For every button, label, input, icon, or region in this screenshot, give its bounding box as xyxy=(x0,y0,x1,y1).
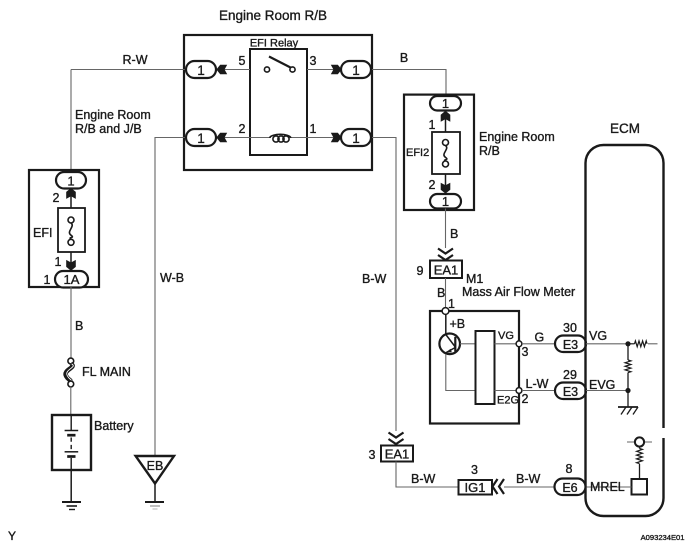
connector oval 1 (row1 right) xyxy=(341,61,371,78)
ECM right edge gap xyxy=(660,428,668,438)
wire EVG inside ECM xyxy=(586,390,628,392)
svg-text:EFI2: EFI2 xyxy=(406,147,429,159)
svg-text:2: 2 xyxy=(429,178,436,192)
wire EA1-3 down to IG1 row xyxy=(396,462,459,488)
svg-text:+B: +B xyxy=(450,317,466,331)
connector oval 1A (EFI bottom) xyxy=(55,271,88,288)
splice chevron left (IG1) xyxy=(493,479,505,494)
fuse EFI2 (body) xyxy=(432,132,460,174)
svg-text:EFI Relay: EFI Relay xyxy=(250,38,299,50)
svg-text:2: 2 xyxy=(522,392,529,406)
MREL driver box xyxy=(632,479,648,495)
wire EB to ground xyxy=(154,484,156,503)
wire IG1 to E6 xyxy=(504,486,555,488)
node 2 (MAF E2G) xyxy=(516,388,522,394)
svg-text:VG: VG xyxy=(498,330,514,342)
svg-text:ECM: ECM xyxy=(610,121,640,136)
svg-text:Mass Air Flow Meter: Mass Air Flow Meter xyxy=(462,285,575,299)
ground (EB) xyxy=(145,502,164,509)
battery symbol xyxy=(65,415,79,470)
junction block EFI fuse (box) xyxy=(29,170,99,287)
relay switch blade xyxy=(269,57,291,68)
svg-text:W-B: W-B xyxy=(160,271,184,285)
connector IG1 xyxy=(459,480,493,495)
wire inside EFI block xyxy=(70,188,72,208)
svg-text:IG1: IG1 xyxy=(465,480,486,495)
relay coil xyxy=(270,134,292,142)
arrow down to EFI2 bottom connector xyxy=(441,183,451,194)
wire EVG node to chassis ground xyxy=(627,391,629,408)
wire R-W horizontal xyxy=(71,69,186,71)
ground (battery) xyxy=(62,502,81,510)
svg-text:EA1: EA1 xyxy=(385,447,410,462)
wire pin1 to transistor xyxy=(445,315,447,335)
svg-text:2: 2 xyxy=(53,191,60,205)
svg-text:1: 1 xyxy=(67,174,74,189)
svg-text:B: B xyxy=(450,227,458,241)
svg-text:EA1: EA1 xyxy=(434,263,459,278)
svg-text:A093234E01: A093234E01 xyxy=(641,533,685,542)
wire coil leads xyxy=(250,137,271,139)
junction block Engine Room R/B (EFI2 box) xyxy=(404,95,474,210)
wire R-W vertical xyxy=(70,70,72,174)
connector EA1 (3) xyxy=(381,446,413,462)
fuse EFI2 symbol xyxy=(443,140,449,168)
junction VG node xyxy=(625,341,630,346)
chassis ground (ECM) xyxy=(618,407,638,415)
junction block Engine Room R/B (outer box) xyxy=(184,35,372,170)
svg-text:1A: 1A xyxy=(64,272,80,287)
splice chevron down (EA1-3) xyxy=(389,433,404,445)
wire relay pin3 to connector xyxy=(307,69,341,71)
battery (box) xyxy=(52,415,91,470)
wire B battery feed xyxy=(70,287,72,358)
svg-text:EB: EB xyxy=(147,459,164,473)
wire VG xyxy=(495,343,520,345)
svg-text:1: 1 xyxy=(352,63,360,78)
svg-text:Engine Room R/B: Engine Room R/B xyxy=(219,8,327,23)
connector oval 1 (EFI top) xyxy=(56,172,86,189)
svg-text:30: 30 xyxy=(563,321,577,335)
svg-text:2: 2 xyxy=(239,122,246,136)
svg-text:E3: E3 xyxy=(563,338,578,352)
arrow into row2-left connector xyxy=(216,133,227,143)
svg-text:B: B xyxy=(437,286,445,300)
wire W-B from row2-left connector xyxy=(155,138,186,457)
wire L-W to E3 xyxy=(522,390,555,392)
svg-text:Engine Room: Engine Room xyxy=(75,108,151,122)
wire relay pin5 to connector xyxy=(217,69,250,71)
wire EA1 to MAF pin1 xyxy=(445,278,447,311)
svg-text:3: 3 xyxy=(310,54,317,68)
svg-text:3: 3 xyxy=(369,448,376,462)
arrow up to EFI top connector xyxy=(66,188,76,199)
fuse EFI (body) xyxy=(58,208,85,252)
svg-text:EVG: EVG xyxy=(589,378,615,392)
connector oval 1 (EFI2 bottom) xyxy=(430,194,461,209)
relay switch contact left xyxy=(264,67,269,72)
fusible link FL MAIN xyxy=(66,358,74,387)
connector oval 1 (row2 right) xyxy=(341,129,371,146)
sensing element (MAF) xyxy=(476,331,495,404)
svg-text:E3: E3 xyxy=(563,385,578,399)
node pin1 (MAF) xyxy=(442,308,449,315)
transistor Q (MAF) xyxy=(439,334,460,355)
ECM (box) xyxy=(586,145,664,516)
svg-text:3: 3 xyxy=(471,463,478,477)
wire transistor emitter down and to sensing element xyxy=(446,354,476,391)
svg-text:1: 1 xyxy=(352,131,360,146)
resistor (ECM vertical) xyxy=(625,344,631,391)
svg-text:1: 1 xyxy=(44,273,51,287)
arrow into row1-right connector xyxy=(331,65,342,75)
connector oval 1 (EFI2 top) xyxy=(430,96,461,111)
svg-text:Engine Room: Engine Room xyxy=(479,130,555,144)
svg-text:8: 8 xyxy=(566,462,573,476)
ground EB (triangle) xyxy=(136,456,174,484)
svg-text:E6: E6 xyxy=(562,481,577,495)
svg-text:B: B xyxy=(75,319,83,333)
svg-text:B-W: B-W xyxy=(411,472,436,486)
wire battery to ground xyxy=(70,470,72,502)
svg-text:VG: VG xyxy=(589,329,607,343)
svg-text:1: 1 xyxy=(310,122,317,136)
wire G to E3 xyxy=(522,343,555,345)
svg-text:M1: M1 xyxy=(466,272,483,286)
connector E3 (30) xyxy=(555,336,586,353)
connector E3 (29) xyxy=(555,383,586,400)
relay switch contact right xyxy=(290,67,295,72)
svg-text:1: 1 xyxy=(442,194,449,209)
splice chevron down (EA1-9) xyxy=(438,249,453,261)
wire relay pin1 to connector xyxy=(307,137,341,139)
svg-text:B: B xyxy=(400,51,408,65)
svg-text:1: 1 xyxy=(55,255,62,269)
svg-text:FL MAIN: FL MAIN xyxy=(82,365,131,379)
node 3 (MAF VG) xyxy=(516,341,522,347)
svg-text:G: G xyxy=(535,331,545,345)
wire B EFI2 to EA1 xyxy=(445,209,447,249)
wire transistor base to sensing element xyxy=(460,343,476,345)
svg-text:1: 1 xyxy=(429,118,436,132)
svg-text:5: 5 xyxy=(239,54,246,68)
svg-text:L-W: L-W xyxy=(526,377,549,391)
svg-text:9: 9 xyxy=(417,264,424,278)
arrow down to EFI bottom connector xyxy=(66,260,76,271)
svg-text:1: 1 xyxy=(442,96,449,111)
arrow up to EFI2 top connector xyxy=(441,111,451,122)
connector oval 1 (row1 left) xyxy=(186,61,216,78)
resistor (MREL vertical) xyxy=(637,447,643,479)
junction EVG node xyxy=(625,388,630,393)
wire FL MAIN to battery xyxy=(70,387,72,416)
svg-text:EFI: EFI xyxy=(33,226,52,240)
svg-text:1: 1 xyxy=(197,131,205,146)
wire node to resistor xyxy=(628,343,635,345)
wire supply dash at MREL driver xyxy=(627,441,652,443)
svg-text:R/B and J/B: R/B and J/B xyxy=(75,122,142,136)
svg-text:B-W: B-W xyxy=(362,272,387,286)
wire after horizontal resistor xyxy=(648,343,658,345)
fuse EFI symbol xyxy=(68,217,74,245)
connector oval 1 (row2 left) xyxy=(186,129,216,146)
wire VG inside ECM xyxy=(586,343,628,345)
svg-text:MREL: MREL xyxy=(590,480,625,494)
mass air flow meter (box) xyxy=(430,311,519,424)
wire MREL inside ECM xyxy=(586,486,632,488)
svg-text:Y: Y xyxy=(8,529,16,543)
MREL driver circle xyxy=(635,437,644,446)
wire E2G xyxy=(495,390,520,392)
arrow into row1-left connector xyxy=(216,65,227,75)
svg-text:E2G: E2G xyxy=(497,395,519,407)
resistor (ECM horizontal) xyxy=(635,341,648,347)
svg-text:1: 1 xyxy=(197,63,205,78)
svg-text:B-W: B-W xyxy=(516,472,541,486)
arrow into row2-right connector xyxy=(331,133,342,143)
wire relay pin2 to connector xyxy=(217,137,250,139)
relay EFI Relay (body) xyxy=(250,49,307,155)
wire inside EFI2 xyxy=(445,110,447,132)
connector E6 (8) xyxy=(555,479,586,496)
wire B-W from row2-right connector down xyxy=(371,138,396,432)
wire B from relay to EFI2 xyxy=(371,70,446,97)
svg-text:29: 29 xyxy=(563,368,577,382)
svg-text:3: 3 xyxy=(522,345,529,359)
svg-text:R/B: R/B xyxy=(479,144,500,158)
svg-text:Battery: Battery xyxy=(94,419,134,433)
svg-text:R-W: R-W xyxy=(123,53,148,67)
connector EA1 (9) xyxy=(430,261,462,279)
